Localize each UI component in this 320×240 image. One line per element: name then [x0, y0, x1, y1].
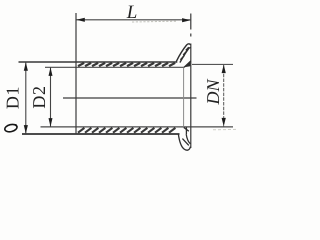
- dimension L: dimension line with arrows: [76, 18, 190, 22]
- node A: left face of ferrule with L extension: [75, 13, 77, 135]
- wire: inner top bore line: [45, 66, 184, 68]
- node D: bottom flange bead (hooked lip, sectioned): [178, 127, 190, 150]
- svg-text:D2: D2: [29, 85, 49, 108]
- label D1 (rotated): [3, 86, 23, 109]
- label diameter symbol (rotated ellipse glyph): [4, 123, 18, 133]
- node C: top flange bead (flared lip, sectioned): [176, 44, 190, 63]
- wire: inner bottom bore line: [41, 126, 234, 128]
- label D2 (rotated): [29, 85, 49, 108]
- dimension DN: dimension line with arrows: [222, 64, 226, 126]
- wire: top band hatching: [78, 63, 175, 66]
- dimension D1: dimension line with arrows: [24, 62, 28, 134]
- wire: faint pencil smudge right of L: [132, 20, 177, 23]
- svg-text:DN: DN: [203, 79, 223, 106]
- wire: DN top extension line: [192, 63, 233, 65]
- wire: bottom band hatching: [78, 128, 175, 133]
- wire: outer top wall line: [19, 61, 178, 63]
- svg-text:L: L: [126, 2, 138, 23]
- wire: faint smudge bottom right: [213, 128, 236, 130]
- wire: outer bottom wall line: [22, 133, 180, 135]
- label L: [126, 2, 138, 23]
- node B: right face of ferrule with L extension (broken like dash-dot): [190, 14, 192, 149]
- label DN (rotated, italic): [203, 79, 223, 106]
- wire: top bore lip at clamp face (hatched solid): [184, 61, 191, 67]
- svg-text:D1: D1: [3, 86, 23, 109]
- wire: center axis line: [63, 97, 197, 99]
- dimension D2: dimension line with arrows: [49, 67, 53, 127]
- wire: flare transition inner edge: [183, 68, 185, 127]
